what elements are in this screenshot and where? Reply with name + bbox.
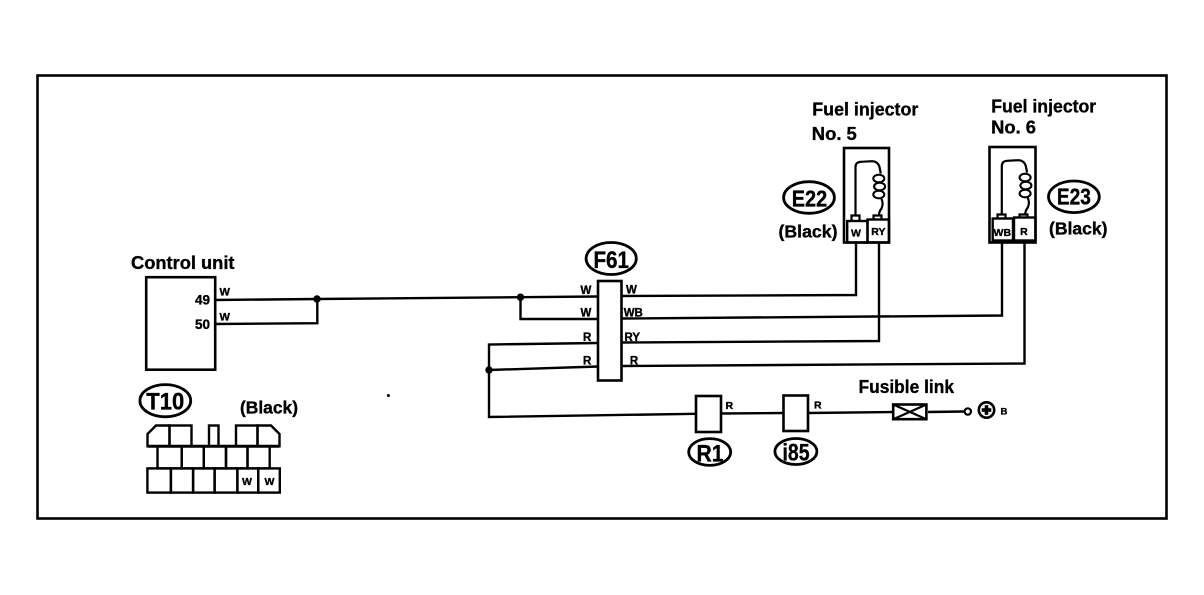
- svg-text:Fuel injector: Fuel injector: [991, 95, 1096, 116]
- svg-text:B: B: [1001, 407, 1008, 418]
- wire W from pin 49: [215, 287, 598, 301]
- svg-text:W: W: [626, 284, 637, 296]
- svg-text:R1: R1: [697, 441, 724, 468]
- svg-text:F61: F61: [593, 247, 629, 274]
- fuel injector No.6: [990, 95, 1097, 242]
- svg-text:RY: RY: [871, 226, 885, 238]
- svg-text:W: W: [242, 476, 252, 488]
- wire R F61 row3 left: [489, 343, 696, 417]
- svg-text:(Black): (Black): [779, 221, 838, 241]
- control unit: [131, 252, 235, 370]
- svg-text:W: W: [220, 312, 231, 324]
- speck: [387, 394, 390, 397]
- wire RY F61 to injector5 pin RY: [622, 243, 880, 343]
- svg-text:Fusible link: Fusible link: [859, 376, 955, 397]
- connector T10: [140, 385, 298, 493]
- connector F61: [580, 243, 642, 381]
- wire R1 to i85: [721, 412, 784, 415]
- svg-text:T10: T10: [146, 389, 184, 416]
- junction A: [313, 295, 320, 302]
- svg-text:Fuel injector: Fuel injector: [812, 99, 918, 120]
- fuel injector No.5: [812, 99, 919, 243]
- svg-text:i85: i85: [783, 440, 810, 467]
- svg-text:Control unit: Control unit: [131, 252, 235, 273]
- svg-text:W: W: [580, 285, 591, 297]
- svg-text:(Black): (Black): [1049, 219, 1108, 239]
- svg-text:W: W: [580, 307, 591, 319]
- wire WB F61 to injector6 pin WB: [622, 241, 1003, 319]
- wire W F61 to injector5 pin W: [622, 243, 857, 296]
- battery terminal B: [965, 402, 1008, 417]
- wire W from pin 50: [215, 299, 317, 324]
- connector E22: [779, 182, 838, 242]
- wire W to F61 row2: [521, 297, 599, 319]
- svg-text:(Black): (Black): [240, 398, 298, 418]
- svg-text:E23: E23: [1057, 184, 1091, 210]
- svg-text:R: R: [814, 400, 822, 412]
- wire R F61 to injector6 pin R: [622, 241, 1025, 366]
- svg-text:W: W: [264, 476, 274, 488]
- svg-text:W: W: [220, 287, 231, 299]
- svg-text:R: R: [583, 355, 592, 367]
- svg-text:E22: E22: [792, 186, 828, 212]
- svg-text:R: R: [726, 400, 734, 412]
- svg-text:No. 5: No. 5: [812, 124, 857, 144]
- wire fusible link to terminal: [928, 410, 965, 413]
- wire R F61 row4 left: [489, 367, 598, 371]
- svg-text:W: W: [851, 228, 861, 240]
- junction B: [517, 294, 524, 301]
- resistor R1: [689, 396, 734, 468]
- svg-text:50: 50: [195, 317, 210, 332]
- fusible link: [859, 376, 955, 419]
- svg-text:No. 6: No. 6: [991, 118, 1036, 138]
- svg-text:WB: WB: [994, 227, 1012, 239]
- connector E23: [1049, 181, 1108, 239]
- junction C: [485, 366, 492, 373]
- svg-text:49: 49: [195, 293, 210, 308]
- wire i85 to fusible link: [808, 412, 892, 413]
- connector i85: [775, 396, 822, 467]
- svg-text:R: R: [1020, 226, 1028, 238]
